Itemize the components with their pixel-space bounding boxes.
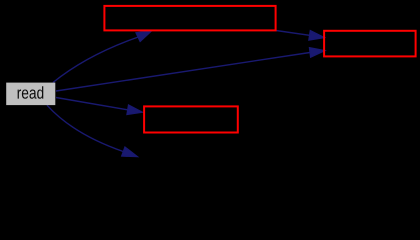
wire edge: read to right node: [56, 53, 310, 92]
wire edge: top node to right node: [276, 31, 310, 36]
node: middle truncated box (red): [144, 106, 238, 132]
node: right truncated box (red): [324, 31, 416, 57]
arrowhead at bottom: [122, 147, 138, 157]
arrowhead into right node (upper): [309, 30, 325, 40]
arrowhead into right node (lower): [309, 48, 325, 58]
node: top truncated box (red): [104, 6, 275, 31]
arrowhead into top node bottom: [136, 31, 152, 42]
arrowhead into middle node: [127, 105, 143, 115]
wire edge: read to middle node: [56, 98, 128, 110]
node: read (current node, grey): [6, 83, 55, 106]
wire edge: read downward to hidden node: [47, 105, 123, 151]
label: read: [18, 86, 44, 98]
wire edge: read to top node: [53, 37, 138, 82]
